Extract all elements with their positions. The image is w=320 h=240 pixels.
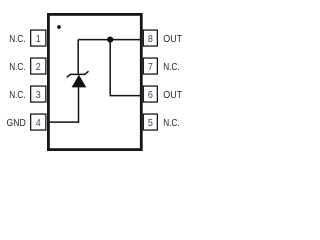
svg-text:N.C.: N.C. bbox=[9, 62, 25, 73]
pin-1 indicator dot bbox=[57, 25, 61, 29]
zener diode D1: cathode bar with bent ends bbox=[67, 71, 89, 77]
pin 4 box bbox=[31, 114, 46, 130]
svg-text:N.C.: N.C. bbox=[9, 90, 25, 101]
pin 8 box bbox=[143, 30, 157, 46]
svg-text:8: 8 bbox=[148, 34, 153, 45]
pin 2 box bbox=[31, 58, 46, 74]
svg-text:N.C.: N.C. bbox=[163, 118, 179, 129]
svg-text:2: 2 bbox=[36, 62, 41, 73]
svg-text:1: 1 bbox=[36, 34, 41, 45]
wire: junction down then right to pin 6 bbox=[110, 40, 141, 96]
pin 7 box bbox=[143, 58, 157, 74]
wire: cathode lead down to zener bar bbox=[77, 40, 79, 74]
svg-text:5: 5 bbox=[148, 118, 153, 129]
svg-text:3: 3 bbox=[36, 90, 41, 101]
pin 3 box bbox=[31, 86, 46, 102]
pin 6 box bbox=[143, 86, 157, 102]
IC body U1 (DIP-8 outline) bbox=[48, 14, 141, 149]
wire: pin 4 GND right then up to diode anode bbox=[49, 87, 79, 122]
pin 5 box bbox=[143, 114, 157, 130]
svg-text:7: 7 bbox=[148, 62, 153, 73]
svg-text:4: 4 bbox=[36, 118, 41, 129]
node junction dot bbox=[107, 37, 113, 43]
svg-text:OUT: OUT bbox=[163, 34, 182, 45]
svg-text:6: 6 bbox=[148, 90, 153, 101]
svg-text:N.C.: N.C. bbox=[9, 34, 25, 45]
svg-text:GND: GND bbox=[7, 118, 26, 129]
wire: top rail from diode cathode to pin 8 bbox=[78, 39, 141, 41]
zener diode D1: anode triangle bbox=[72, 75, 87, 88]
svg-text:N.C.: N.C. bbox=[163, 62, 179, 73]
pin 1 box bbox=[31, 30, 46, 46]
svg-text:OUT: OUT bbox=[163, 90, 182, 101]
